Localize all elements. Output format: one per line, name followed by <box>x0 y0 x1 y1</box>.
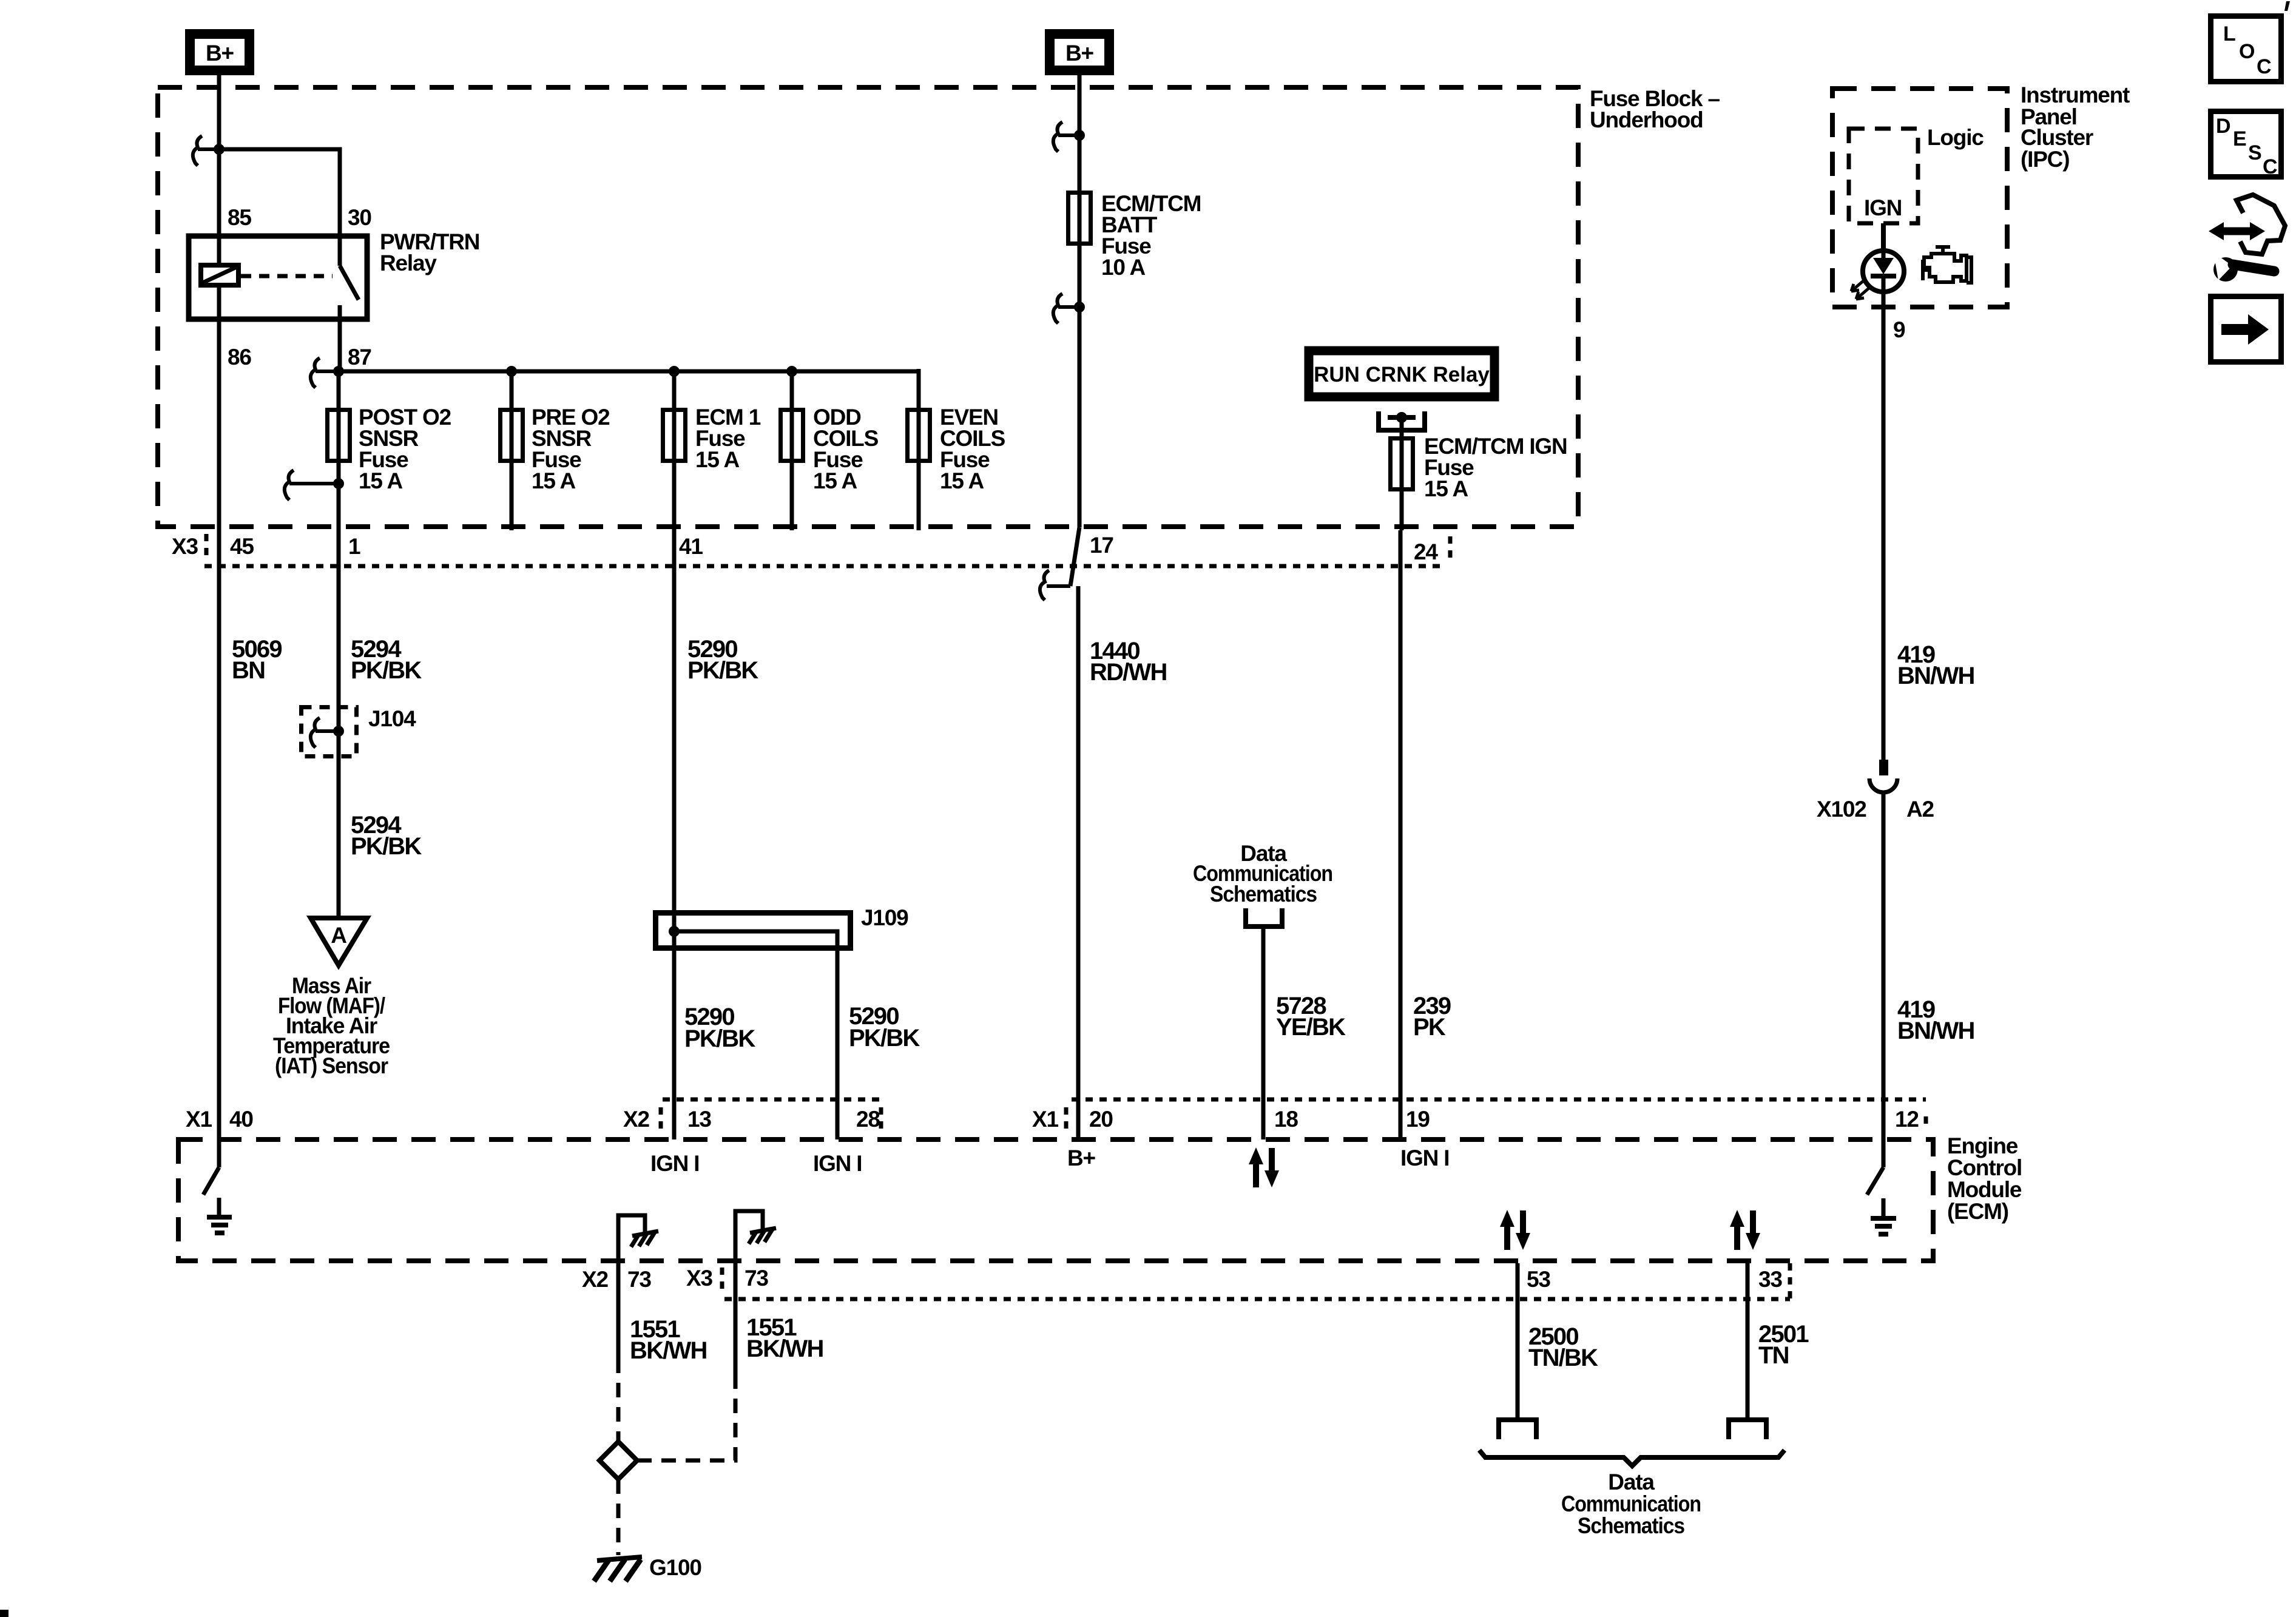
wire 239 PK (pin 24 to ECM 19) <box>1399 530 1403 1139</box>
wire 2500 TN/BK (pin 53) <box>1516 1263 1520 1420</box>
node: bus junction ECM 1 <box>669 366 680 377</box>
clip hook above ECM/TCM BATT fuse <box>1053 122 1062 152</box>
svg-text:C: C <box>2263 155 2278 178</box>
dashed wire diamond to X3-73 wire <box>637 1380 735 1460</box>
svg-text:15 A: 15 A <box>695 447 739 472</box>
node: bus junction PRE O2 <box>506 366 517 377</box>
svg-text:PK/BK: PK/BK <box>684 1025 755 1052</box>
label 5728 YE/BK <box>1276 993 1346 1041</box>
svg-text:A2: A2 <box>1906 797 1934 822</box>
svg-text:BK/WH: BK/WH <box>746 1335 823 1362</box>
svg-text:X3: X3 <box>686 1266 712 1291</box>
wire 5294 PK/BK (pin 1 to J104) <box>337 530 341 918</box>
clip hook at bus junction <box>311 358 320 388</box>
harness/wrench icon <box>2209 195 2285 282</box>
svg-text:Schematics: Schematics <box>1578 1513 1685 1538</box>
svg-text:Instrument: Instrument <box>2021 83 2130 107</box>
svg-text:(IPC): (IPC) <box>2021 147 2069 172</box>
wire relay 86 down to pin 45 <box>217 322 221 530</box>
svg-text:IGN: IGN <box>1864 195 1902 220</box>
svg-text:BN/WH: BN/WH <box>1897 663 1974 689</box>
svg-text:73: 73 <box>627 1267 651 1292</box>
scan artifact bottom-left <box>0 1610 8 1617</box>
svg-text:X3: X3 <box>172 534 198 559</box>
label 5069 BN <box>232 636 282 684</box>
label 2501 TN <box>1758 1321 1809 1369</box>
svg-text:41: 41 <box>679 534 703 559</box>
node: junction below POST O2 fuse <box>333 478 344 489</box>
Logic dashed box <box>1849 129 1918 223</box>
svg-text:15 A: 15 A <box>1424 476 1468 501</box>
svg-text:73: 73 <box>745 1266 768 1291</box>
splice pack diamond <box>599 1442 637 1479</box>
wire B+ center down <box>1078 75 1082 527</box>
label 1440 RD/WH <box>1090 638 1167 686</box>
svg-text:Logic: Logic <box>1927 125 1984 150</box>
svg-text:86: 86 <box>228 345 251 370</box>
svg-text:Relay: Relay <box>380 251 437 275</box>
wire fuse feed bus <box>339 370 919 374</box>
svg-text:C: C <box>2257 55 2272 78</box>
fuse ODD COILS 15A <box>781 405 879 493</box>
svg-text:X1: X1 <box>186 1107 212 1132</box>
svg-text:J109: J109 <box>861 905 908 930</box>
svg-text:PK/BK: PK/BK <box>849 1025 920 1052</box>
RUN CRNK relay output bracket <box>1379 411 1425 430</box>
wire 5069 BN (pin 45 to ECM X1-40) <box>217 530 221 1139</box>
ground G100 <box>594 1557 642 1581</box>
label Data Communication Schematics (top) <box>1193 841 1332 906</box>
ECM internal chassis ground (X2-73) <box>618 1215 658 1261</box>
svg-text:G100: G100 <box>649 1555 701 1580</box>
svg-text:33: 33 <box>1758 1267 1782 1292</box>
label 5290 PK/BK (right lower) <box>849 1003 920 1052</box>
svg-text:B+: B+ <box>1067 1146 1096 1170</box>
terminator (pin 53 wire) <box>1499 1420 1536 1439</box>
fuse EVEN COILS 15A <box>908 405 1005 493</box>
svg-text:J104: J104 <box>368 706 416 731</box>
svg-text:IGN I: IGN I <box>650 1151 699 1176</box>
label Engine Control Module (ECM) <box>1947 1133 2022 1224</box>
svg-text:17: 17 <box>1090 533 1113 558</box>
wire 1551 BK/WH (X3-73) <box>734 1261 738 1380</box>
fuse POST O2 SNSR 15A <box>328 405 451 493</box>
ground (ECM pin 40) <box>207 1217 232 1233</box>
svg-text:18: 18 <box>1274 1107 1298 1132</box>
ECM internal switch to ground (pin 40) <box>203 1139 219 1216</box>
svg-text:PK/BK: PK/BK <box>351 833 422 860</box>
B+ terminal (center) <box>1050 34 1109 70</box>
wire PRE O2 branch <box>510 371 514 530</box>
svg-text:Cluster: Cluster <box>2021 125 2093 150</box>
svg-text:Communication: Communication <box>1561 1491 1701 1516</box>
relay PWR/TRN label <box>380 229 479 275</box>
ECM internal chassis ground (X3-73) <box>735 1211 776 1261</box>
wire jumper to relay pin 30 <box>219 149 340 234</box>
svg-text:RD/WH: RD/WH <box>1090 659 1167 686</box>
svg-text:53: 53 <box>1527 1267 1550 1292</box>
svg-text:Data: Data <box>1608 1470 1655 1494</box>
svg-text:1: 1 <box>348 534 360 559</box>
data arrows at pin 18 <box>1249 1147 1279 1187</box>
node: bus junction ODD COILS <box>786 366 797 377</box>
clip hook at B+ left junction <box>193 136 202 166</box>
label Mass Air Flow (MAF)/ Intake Air Temperature (IAT) Sensor <box>273 973 390 1078</box>
wire 1440 RD/WH (pin 17 to ECM X1-20) <box>1040 527 1079 1139</box>
svg-text:E: E <box>2233 127 2247 150</box>
wire 419 BN/WH (IPC 9 to X102) <box>1882 292 1886 760</box>
svg-text:87: 87 <box>348 345 371 370</box>
DESC icon box <box>2211 112 2281 179</box>
Engine Control Module dashed box <box>178 1139 1933 1261</box>
svg-text:24: 24 <box>1414 539 1438 564</box>
label 5294 PK/BK (lower) <box>351 812 422 860</box>
Instrument Panel Cluster dashed box <box>1832 89 2007 307</box>
svg-text:BK/WH: BK/WH <box>630 1337 707 1364</box>
svg-text:IGN I: IGN I <box>1400 1146 1449 1170</box>
svg-text:30: 30 <box>348 205 371 230</box>
svg-text:X1: X1 <box>1032 1107 1058 1132</box>
wire ODD COILS branch <box>790 371 794 530</box>
wire POST O2 branch <box>337 371 341 530</box>
svg-text:Module: Module <box>1947 1177 2022 1202</box>
fuse ECM/TCM BATT 10A <box>1069 191 1201 280</box>
MAF/IAT sensor triangle <box>311 918 367 965</box>
node: junction below BATT fuse <box>1074 302 1085 312</box>
relay PWR/TRN box <box>189 236 367 319</box>
svg-text:9: 9 <box>1893 317 1905 342</box>
wire EVEN COILS branch <box>917 369 921 530</box>
svg-text:D: D <box>2216 115 2231 138</box>
X3 connector row at fuse block bottom <box>172 533 1450 566</box>
splice J104 <box>302 707 357 757</box>
label 239 PK <box>1413 993 1451 1041</box>
svg-text:10 A: 10 A <box>1101 255 1145 280</box>
svg-text:12: 12 <box>1895 1107 1919 1132</box>
scan artifact top-right <box>2284 1 2290 11</box>
fuse ECM 1 15A <box>663 405 761 472</box>
splice J109 <box>656 913 851 951</box>
svg-text:15 A: 15 A <box>359 468 402 493</box>
svg-text:19: 19 <box>1406 1107 1430 1132</box>
label Data Communication Schematics (bottom) <box>1561 1470 1701 1538</box>
svg-text:S: S <box>2248 141 2262 164</box>
wire B+ left down into fuse block <box>217 75 221 234</box>
relay coil-contact dashed link <box>241 274 333 279</box>
svg-text:28: 28 <box>856 1107 880 1132</box>
svg-text:BN: BN <box>232 657 265 684</box>
svg-text:BN/WH: BN/WH <box>1897 1018 1974 1044</box>
wire ECM 1 branch <box>672 371 677 530</box>
terminator (pin 33 wire) <box>1729 1420 1766 1439</box>
relay coil <box>201 234 238 322</box>
svg-text:X2: X2 <box>582 1267 608 1292</box>
clip hook below POST O2 fuse <box>285 470 294 500</box>
fuse ECM/TCM IGN 15A <box>1391 434 1567 501</box>
data arrows at pin 33 <box>1730 1210 1760 1250</box>
wire 2501 TN (pin 33) <box>1746 1263 1750 1420</box>
svg-text:YE/BK: YE/BK <box>1276 1014 1346 1041</box>
dashed wire to splice pack <box>616 1359 621 1442</box>
svg-text:40: 40 <box>229 1107 253 1132</box>
X2/X3 connector row at ECM bottom <box>582 1263 1790 1299</box>
engine icon <box>1923 247 1971 283</box>
wire relay output to IGN fuse <box>1400 417 1404 530</box>
label 5290 PK/BK <box>687 636 758 684</box>
Fuse Block label <box>1590 86 1720 132</box>
svg-text:15 A: 15 A <box>940 468 984 493</box>
svg-text:PK/BK: PK/BK <box>687 657 758 684</box>
svg-text:15 A: 15 A <box>532 468 575 493</box>
node: bus junction 87 <box>333 366 344 377</box>
svg-text:RUN CRNK Relay: RUN CRNK Relay <box>1314 363 1490 387</box>
svg-text:20: 20 <box>1089 1107 1113 1132</box>
connector X102 A2 <box>1869 760 1897 792</box>
wire 5728 YE/BK (to ECM 18) <box>1261 927 1266 1139</box>
svg-text:O: O <box>2239 40 2255 63</box>
svg-text:Schematics: Schematics <box>1210 882 1317 906</box>
data arrows at pin 53 <box>1500 1210 1530 1250</box>
clip hook below ECM/TCM BATT fuse <box>1053 294 1062 323</box>
svg-text:45: 45 <box>230 534 254 559</box>
dashed wire diamond to G100 <box>616 1479 621 1555</box>
svg-text:TN: TN <box>1758 1342 1789 1369</box>
label Instrument Panel Cluster (IPC) <box>2021 83 2130 172</box>
X1 connector outline (pins 20/18/19/12) <box>1032 1099 1926 1132</box>
svg-text:L: L <box>2223 22 2236 46</box>
svg-text:B+: B+ <box>206 41 234 66</box>
LOC icon box <box>2211 16 2281 82</box>
svg-text:X102: X102 <box>1817 797 1866 822</box>
wire relay 87 down to bus <box>338 322 342 371</box>
svg-text:85: 85 <box>228 205 251 230</box>
svg-text:(IAT) Sensor: (IAT) Sensor <box>275 1053 388 1078</box>
label 1551 BK/WH (right) <box>746 1314 823 1362</box>
X2 connector outline (pins 13/28) <box>623 1099 881 1132</box>
svg-text:B+: B+ <box>1065 41 1094 66</box>
svg-text:(ECM): (ECM) <box>1947 1199 2008 1224</box>
svg-text:Engine: Engine <box>1947 1133 2018 1158</box>
svg-text:13: 13 <box>687 1107 711 1132</box>
svg-text:Control: Control <box>1947 1155 2022 1180</box>
label 1551 BK/WH (left) <box>630 1316 707 1364</box>
ECM internal switch to ground (pin 12) <box>1867 1139 1883 1217</box>
wire 419 BN/WH (X102 to ECM 12) <box>1882 792 1886 1139</box>
svg-text:Underhood: Underhood <box>1590 107 1703 132</box>
wire logic to indicator <box>1881 223 1886 251</box>
next-page arrow box <box>2211 297 2281 362</box>
RUN CRNK Relay box <box>1309 351 1494 397</box>
brace Data Communication Schematics <box>1479 1450 1784 1466</box>
wire 5290 PK/BK (pin 41 to J109) <box>672 530 677 1139</box>
indicator LED (MIL) <box>1851 251 1904 299</box>
label 419 BN/WH <box>1897 641 1974 689</box>
label 419 BN/WH (lower) <box>1897 996 1974 1044</box>
label 2500 TN/BK <box>1528 1323 1598 1371</box>
label 5294 PK/BK <box>351 636 422 684</box>
label 5290 PK/BK (left lower) <box>684 1004 755 1052</box>
svg-text:TN/BK: TN/BK <box>1528 1345 1598 1371</box>
svg-text:PK/BK: PK/BK <box>351 657 422 684</box>
off-page bracket under Data Communication Schematics <box>1246 908 1282 927</box>
Fuse Block - Underhood dashed box <box>158 87 1578 527</box>
svg-text:A: A <box>331 923 346 948</box>
svg-text:PK: PK <box>1413 1014 1446 1041</box>
B+ terminal (left) <box>190 34 249 70</box>
fuse PRE O2 SNSR 15A <box>501 405 610 493</box>
svg-text:X2: X2 <box>623 1107 649 1132</box>
node: junction above BATT fuse <box>1074 130 1085 141</box>
node: junction dot B+ left <box>214 144 225 155</box>
wire 1551 BK/WH (X2-73) <box>616 1261 621 1359</box>
svg-text:15 A: 15 A <box>813 468 857 493</box>
X1 connector outline (ECM top left) <box>186 1107 253 1132</box>
svg-text:IGN I: IGN I <box>813 1151 862 1176</box>
ground (ECM pin 12) <box>1871 1218 1896 1234</box>
relay switch contact <box>340 234 359 322</box>
wire 5290 PK/BK (J109 to ECM X2-28) <box>836 931 840 1139</box>
